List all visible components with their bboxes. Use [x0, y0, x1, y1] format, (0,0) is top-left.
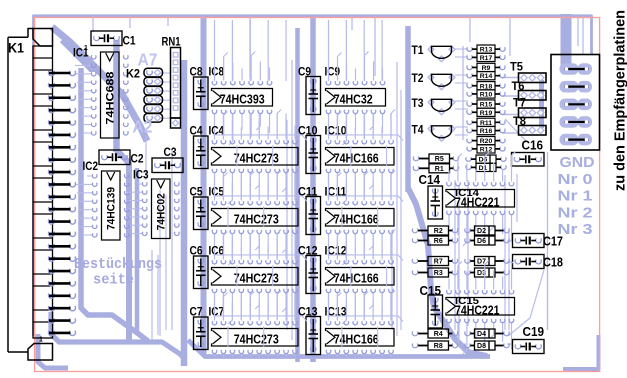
label RN1	[162, 35, 181, 49]
diode D1	[466, 163, 506, 172]
label C2	[131, 152, 144, 166]
svg-text:74HC273: 74HC273	[234, 211, 279, 226]
label IC13	[325, 304, 347, 318]
svg-text:C2: C2	[131, 152, 144, 166]
svg-text:C14: C14	[419, 173, 441, 187]
capacitor C10	[306, 136, 321, 174]
svg-text:GND: GND	[560, 154, 595, 171]
capacitor C3	[152, 158, 183, 173]
label IC14	[455, 188, 479, 199]
svg-text:RN1: RN1	[162, 35, 181, 49]
svg-text:D2: D2	[477, 228, 486, 235]
svg-text:74HC32: 74HC32	[334, 91, 373, 106]
wire: vertical bus right of col2	[405, 26, 411, 192]
transistor T4	[428, 126, 455, 141]
wire: top bus stubs	[93, 16, 583, 78]
capacitor C2	[99, 150, 130, 165]
wire: vertical bus through caps col1	[201, 16, 207, 354]
svg-text:R3: R3	[434, 270, 443, 277]
IC U2 74HC139 (IC2)	[76, 171, 129, 240]
pin-1 marker IC1	[84, 45, 88, 52]
label T3	[412, 96, 424, 110]
svg-text:D4: D4	[477, 331, 486, 338]
diode D8	[465, 341, 509, 350]
wire: thick GND drop into output connector	[561, 14, 572, 68]
capacitor C6	[194, 256, 209, 289]
IC IC8 74HC393	[212, 52, 273, 146]
svg-text:D1: D1	[479, 165, 488, 172]
svg-text:C8: C8	[190, 64, 203, 78]
capacitor C4	[194, 136, 209, 169]
capacitor C9	[306, 77, 321, 115]
svg-text:R7: R7	[434, 259, 443, 266]
wire: slanted bus right region	[408, 188, 487, 356]
wire: vertical bus behind IC1	[113, 40, 120, 152]
label T1	[412, 43, 424, 57]
svg-text:D8: D8	[477, 343, 486, 350]
value label 74HC221 (IC14)	[455, 196, 500, 210]
net label Nr 0	[558, 171, 593, 188]
resistor R15	[467, 100, 505, 109]
resistor R9	[467, 63, 505, 72]
svg-text:Bestückungs: Bestückungs	[74, 257, 162, 273]
diode D2	[465, 226, 509, 235]
svg-text:D6: D6	[477, 238, 486, 245]
label C3	[164, 145, 177, 159]
svg-text:R10: R10	[480, 92, 493, 99]
wire: left vertical bus behind K1 pads	[81, 68, 148, 341]
silkscreen text A7	[138, 50, 158, 70]
svg-text:A7: A7	[138, 50, 158, 70]
label C10	[298, 123, 318, 137]
label IC6	[209, 243, 225, 257]
svg-text:R14: R14	[480, 73, 493, 80]
wire: bottom-right corner bus	[563, 335, 599, 369]
IC IC6 74HC273	[212, 230, 299, 325]
svg-text:74HC273: 74HC273	[234, 150, 279, 165]
svg-text:IC2: IC2	[83, 159, 99, 173]
label C14	[419, 173, 441, 187]
label C17	[543, 235, 563, 249]
wire: right region thin traces	[455, 46, 544, 344]
connector K1 body	[8, 29, 53, 361]
label IC8	[209, 64, 225, 78]
svg-text:C6: C6	[190, 243, 203, 257]
capacitor C19	[513, 340, 545, 354]
label C4	[190, 123, 203, 137]
resistor R14	[467, 72, 505, 81]
label C1	[123, 34, 136, 48]
svg-text:74HC166: 74HC166	[334, 150, 379, 165]
label IC3	[133, 168, 149, 182]
transistor T3	[428, 99, 455, 114]
label T6	[512, 79, 525, 93]
IC IC5 74HC273	[212, 171, 299, 266]
svg-text:R4: R4	[434, 331, 443, 338]
output connector	[551, 55, 600, 151]
net label Nr 1	[558, 188, 593, 205]
label C16	[522, 139, 544, 153]
resistor R13	[467, 45, 505, 54]
svg-text:74HC166: 74HC166	[334, 270, 379, 285]
resistor R12	[467, 145, 505, 154]
capacitor C17	[513, 234, 545, 248]
capacitor C14	[428, 186, 443, 219]
label IC2	[83, 159, 99, 173]
resistor R18	[467, 82, 505, 91]
label T5	[510, 60, 523, 74]
connector T8	[519, 126, 547, 136]
label C19	[523, 325, 545, 339]
svg-text:C5: C5	[190, 184, 203, 198]
svg-text:IC8: IC8	[209, 64, 225, 78]
diode D6	[466, 155, 506, 164]
IC IC14 74HC221	[446, 152, 516, 247]
label IC4	[209, 123, 225, 137]
wire: elbow around IC7	[188, 340, 490, 357]
label T2	[412, 71, 424, 85]
label K2	[126, 67, 140, 81]
svg-text:C7: C7	[190, 304, 203, 318]
wire: vertical bus C column 1 left	[181, 60, 188, 366]
label C9	[298, 64, 311, 78]
svg-text:C4: C4	[190, 123, 203, 137]
svg-text:R5: R5	[435, 156, 444, 163]
silkscreen text Bestueckungs	[74, 257, 162, 273]
IC IC13 74HC166	[326, 291, 396, 358]
net label Nr 3	[558, 221, 593, 238]
svg-text:Nr 1: Nr 1	[558, 188, 593, 205]
svg-text:R2: R2	[434, 228, 443, 235]
capacitor C5	[194, 197, 209, 230]
label IC5	[209, 184, 225, 198]
wire: vertical bus col2 left	[295, 28, 300, 362]
wire: thin vertical right region	[547, 258, 549, 330]
transistor T1	[428, 46, 455, 61]
IC IC11 74HC166	[326, 171, 396, 266]
IC U3 74HC02 (IC3)	[126, 179, 179, 239]
capacitor C12	[306, 256, 321, 294]
svg-text:74HC166: 74HC166	[334, 211, 379, 226]
svg-text:C18: C18	[543, 256, 563, 270]
wire: vertical bus IC2/IC3 gap	[135, 168, 140, 332]
capacitor C18	[513, 255, 545, 269]
svg-text:1: 1	[39, 337, 43, 344]
diode D4	[465, 329, 509, 338]
label IC1	[73, 46, 89, 60]
resistor R11	[467, 118, 505, 127]
capacitor C15	[428, 295, 443, 328]
svg-text:A2: A2	[133, 117, 153, 137]
wire: bus y342 bottom-left	[51, 312, 184, 366]
label K1	[8, 41, 24, 56]
label IC12	[325, 243, 347, 257]
svg-text:74HC688: 74HC688	[104, 72, 116, 125]
label C7	[190, 304, 203, 318]
svg-text:R11: R11	[480, 120, 492, 127]
connector K1 pins and pads	[49, 71, 76, 336]
label T4	[412, 123, 424, 137]
svg-text:74HC166: 74HC166	[334, 331, 379, 346]
svg-text:D6: D6	[479, 157, 488, 164]
label C12	[298, 243, 318, 257]
label C11	[298, 184, 318, 198]
svg-text:74HC393: 74HC393	[220, 91, 265, 106]
IC IC10 74HC166	[326, 110, 396, 205]
wire: big diagonal bus top-left	[52, 27, 147, 141]
resistor R2	[412, 226, 457, 235]
label C5	[190, 184, 203, 198]
wire: bottom-left corner bus	[38, 334, 68, 368]
svg-text:C15: C15	[420, 284, 442, 298]
svg-text:R1: R1	[435, 166, 444, 173]
value label 74HC221 (IC15)	[455, 304, 500, 318]
diode D3	[465, 268, 509, 277]
resistor R3	[412, 268, 457, 277]
wire: K2 to RN1 traces	[157, 73, 171, 118]
IC IC15 74HC221	[446, 260, 516, 355]
connector T6	[519, 91, 547, 101]
label IC15	[455, 296, 479, 307]
svg-text:R20: R20	[480, 138, 493, 145]
svg-text:R13: R13	[480, 47, 493, 54]
net label GND	[560, 154, 595, 171]
svg-text:T5: T5	[510, 60, 523, 74]
wire: thin vertical under connector	[547, 152, 549, 330]
label IC10	[325, 123, 347, 137]
svg-text:R18: R18	[480, 83, 493, 90]
resistor R19	[467, 108, 505, 117]
svg-text:T4: T4	[412, 123, 424, 137]
IC IC12 74HC166	[326, 230, 396, 325]
svg-text:74HC139: 74HC139	[105, 187, 117, 230]
resistor R17	[467, 53, 505, 62]
label IC9	[325, 64, 341, 78]
svg-text:R17: R17	[480, 55, 493, 62]
svg-text:C16: C16	[522, 139, 544, 153]
svg-text:74HC221: 74HC221	[455, 196, 500, 210]
svg-text:74HC273: 74HC273	[234, 270, 279, 285]
connector T5	[519, 73, 547, 83]
label T8	[513, 114, 526, 128]
diode D7	[465, 257, 509, 266]
svg-text:IC3: IC3	[133, 168, 149, 182]
label T7	[513, 96, 526, 110]
IC IC4 74HC273	[212, 110, 299, 205]
resistor R6	[412, 236, 457, 245]
svg-text:C3: C3	[164, 145, 177, 159]
resistor R16	[467, 126, 505, 135]
capacitor C1	[91, 31, 122, 46]
wire: feeder traces above IC rows	[214, 135, 404, 322]
transistor T2	[428, 74, 455, 89]
wire: long thin vertical traces	[146, 46, 509, 340]
resistor R8	[412, 341, 457, 350]
svg-text:R12: R12	[480, 146, 493, 153]
net label Nr 2	[558, 204, 593, 221]
svg-text:1: 1	[84, 45, 88, 52]
label IC7	[209, 304, 225, 318]
wire: diagonal into left vertical bus	[62, 40, 92, 72]
diode D6b	[465, 236, 509, 245]
label zu den Empfaengerplatinen	[613, 10, 627, 191]
svg-text:74HC221: 74HC221	[455, 304, 500, 318]
wire: inter-row vertical traces	[215, 20, 392, 348]
svg-text:seite: seite	[93, 273, 134, 289]
svg-text:R19: R19	[480, 110, 493, 117]
resistor R7	[412, 257, 457, 266]
capacitor C7	[194, 317, 209, 350]
wire: vertical bus through caps col2	[310, 18, 316, 362]
resistor R1	[413, 164, 458, 173]
svg-text:K1: K1	[8, 41, 24, 56]
svg-text:Nr 0: Nr 0	[558, 171, 593, 188]
svg-text:Nr 2: Nr 2	[558, 204, 593, 221]
label IC11	[325, 184, 347, 198]
capacitor C11	[306, 197, 321, 235]
silkscreen text seite	[93, 273, 134, 289]
svg-text:T3: T3	[412, 96, 424, 110]
label C8	[190, 64, 203, 78]
svg-text:R15: R15	[480, 102, 493, 109]
IC U1 74HC688 (IC1)	[75, 52, 128, 138]
IC IC7 74HC273	[212, 291, 299, 358]
svg-text:C1: C1	[123, 34, 136, 48]
resistor R5	[413, 154, 458, 163]
svg-text:zu den Empfängerplatinen: zu den Empfängerplatinen	[613, 10, 627, 191]
wire: bus behind T5-T8	[539, 80, 544, 128]
svg-text:74HC02: 74HC02	[155, 193, 167, 230]
resistor R4	[412, 329, 457, 338]
wire: board border trace (top/left/right)	[34, 16, 592, 336]
svg-text:C19: C19	[523, 325, 545, 339]
svg-text:R8: R8	[434, 343, 443, 350]
label C6	[190, 243, 203, 257]
wire: vertical bus IC2 column	[117, 150, 130, 340]
svg-text:R6: R6	[434, 238, 443, 245]
label C18	[543, 256, 563, 270]
label C13	[298, 304, 318, 318]
svg-text:74HC273: 74HC273	[234, 331, 279, 346]
capacitor C8	[194, 77, 209, 110]
connector T7	[519, 108, 547, 118]
resistor R10	[467, 90, 505, 99]
svg-text:R9: R9	[482, 65, 491, 72]
label C15	[420, 284, 442, 298]
capacitor C16	[512, 153, 545, 167]
svg-text:R16: R16	[480, 128, 493, 135]
capacitor C13	[306, 317, 321, 355]
svg-text:T1: T1	[412, 43, 424, 57]
svg-text:T2: T2	[412, 71, 424, 85]
IC IC9 74HC32	[326, 52, 386, 146]
svg-text:C17: C17	[543, 235, 563, 249]
resistor R20	[467, 137, 505, 146]
resistor network RN1	[171, 48, 181, 129]
connector K2	[144, 68, 163, 122]
silkscreen text A2	[133, 117, 153, 137]
